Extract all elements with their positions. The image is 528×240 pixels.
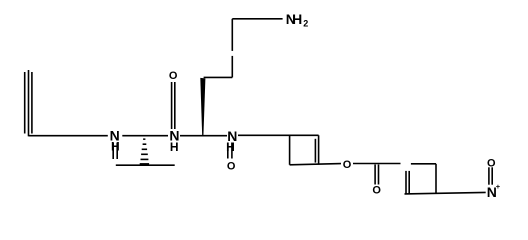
svg-text:+: + (496, 182, 501, 191)
svg-text:NH: NH (286, 11, 303, 27)
svg-text:H: H (226, 140, 235, 154)
svg-text:H: H (170, 140, 179, 154)
svg-text:O: O (487, 157, 496, 169)
svg-text:H: H (111, 140, 120, 154)
svg-text:2: 2 (303, 19, 308, 29)
svg-text:O: O (343, 159, 352, 171)
svg-text:O: O (227, 160, 236, 172)
svg-text:O: O (372, 184, 381, 196)
svg-text:O: O (169, 70, 178, 82)
